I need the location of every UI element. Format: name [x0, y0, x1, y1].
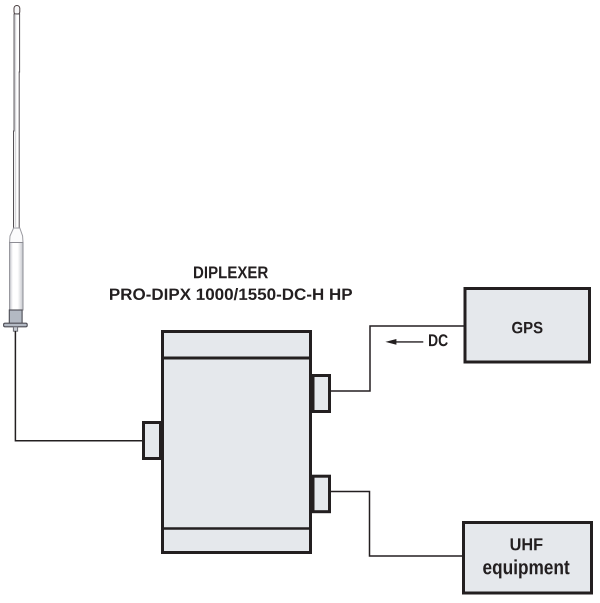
label DIPLEXER [194, 267, 268, 279]
label UHF [511, 538, 543, 550]
diplexer left port stub [144, 423, 161, 459]
antenna ANT1 lower tube [10, 243, 23, 311]
antenna ANT1 mounting flange [4, 323, 28, 327]
label equipment [483, 559, 569, 578]
label DC [429, 334, 448, 346]
diplexer top band divider [161, 357, 312, 360]
antenna ANT1 whip tip cap [14, 6, 20, 15]
wire antenna to diplexer left port [15, 331, 143, 441]
antenna ANT1 thin whip rod [14, 14, 20, 228]
UHF equipment box [464, 523, 592, 594]
wire diplexer lower port to UHF box [331, 492, 463, 557]
antenna ANT1 taper joint [10, 228, 23, 243]
wire diplexer upper port to GPS box [331, 326, 464, 391]
diplexer right lower port stub (UHF) [313, 476, 330, 512]
antenna ANT1 base collar [9, 310, 22, 324]
label PRO-DIPX 1000/1550-DC-H HP [110, 288, 352, 300]
diplexer bottom band divider [161, 527, 312, 530]
arrow DC direction [385, 339, 423, 345]
label GPS [512, 322, 542, 334]
antenna ANT1 connector stub [13, 327, 17, 331]
diplexer right upper port stub (GPS) [313, 376, 330, 412]
GPS box [465, 289, 590, 363]
diplexer main body U1 [163, 332, 311, 553]
